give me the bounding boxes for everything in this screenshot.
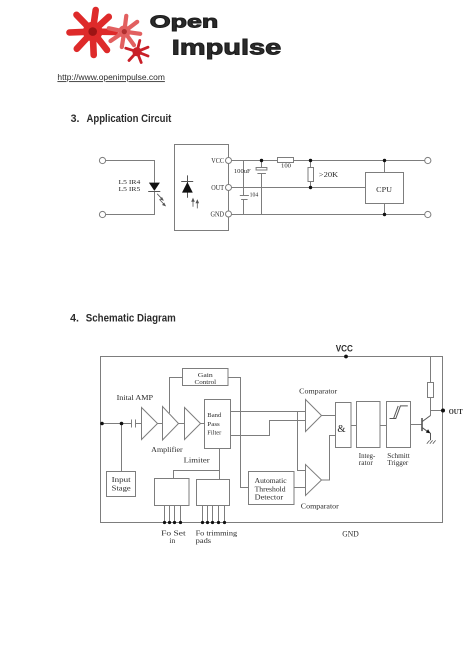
svg-text:Schematic Diagram: Schematic Diagram	[86, 312, 176, 324]
Fo set pin pads	[163, 521, 166, 524]
amp triangle A2	[163, 407, 179, 441]
svg-text:3.: 3.	[71, 113, 80, 125]
input node dots	[100, 422, 104, 426]
wire A2-A3	[179, 423, 185, 425]
wire A1-A2	[158, 423, 163, 425]
svg-text:Automatic: Automatic	[255, 478, 287, 485]
BPF to limiter blocks wire	[219, 449, 221, 481]
Fo set pins	[164, 506, 166, 523]
wire CPU to VCC rail	[384, 161, 386, 173]
integrator out wire	[380, 425, 387, 427]
Fo trimming block	[197, 480, 230, 506]
svg-text:Band: Band	[207, 412, 222, 419]
ground hatch	[427, 440, 436, 443]
svg-text:Control: Control	[195, 379, 217, 386]
junction dots schematic	[100, 355, 445, 525]
logo splat medium	[109, 16, 140, 47]
svg-text:Pass: Pass	[207, 421, 220, 428]
Input Stage box	[107, 472, 136, 497]
svg-text:http://www.openimpulse.com: http://www.openimpulse.com	[57, 72, 164, 82]
svg-text:Threshold: Threshold	[255, 486, 287, 493]
photodiode D2	[181, 175, 198, 208]
terminal input top	[99, 157, 105, 163]
wire top left	[106, 161, 155, 183]
amp triangle A1	[142, 408, 158, 440]
comp1 out wire	[322, 415, 336, 417]
outer box	[101, 357, 443, 523]
capacitor C1 104 line	[243, 161, 245, 196]
svg-text:Amplifier: Amplifier	[151, 445, 183, 454]
schmitt to transistor base wire	[411, 424, 422, 426]
terminal input bottom	[99, 211, 105, 217]
svg-text:&: &	[337, 424, 345, 435]
ATD out wire	[294, 487, 306, 489]
comparator 1	[306, 400, 322, 432]
Schmitt Trigger box	[387, 402, 411, 448]
OUT wire	[431, 410, 443, 412]
Gain Control box	[183, 369, 229, 386]
svg-text:>20K: >20K	[319, 171, 338, 179]
svg-text:100uF: 100uF	[234, 168, 251, 175]
svg-text:4.: 4.	[70, 312, 79, 324]
resistor R2 >20K	[310, 161, 312, 168]
transistor Q1	[422, 416, 436, 444]
svg-text:Impulse: Impulse	[172, 36, 282, 60]
svg-text:OUT: OUT	[449, 407, 464, 416]
Integrator box	[357, 402, 381, 448]
pin circle GND	[226, 211, 232, 217]
svg-text:CPU: CPU	[376, 185, 392, 194]
Band Pass Filter box	[205, 400, 231, 449]
wire A3-BPF	[201, 423, 205, 425]
svg-text:L5 IR4: L5 IR4	[119, 179, 142, 186]
svg-text:Gain: Gain	[198, 372, 214, 379]
Automatic Threshold Detector box	[249, 472, 295, 505]
IC box	[175, 145, 229, 231]
Fo set block	[155, 479, 190, 506]
wire to comparator2 upper input	[298, 412, 306, 471]
svg-text:VCC: VCC	[336, 344, 353, 355]
AND out wire	[351, 425, 357, 427]
svg-text:Limiter: Limiter	[184, 455, 211, 464]
svg-text:Detector: Detector	[255, 494, 284, 501]
svg-text:Filter: Filter	[207, 429, 222, 436]
BPF out upper wire	[231, 411, 306, 413]
svg-text:L5 IR5: L5 IR5	[119, 186, 141, 193]
capacitor C2 100uF line	[261, 161, 263, 168]
svg-text:Comparator: Comparator	[299, 388, 338, 396]
svg-text:Input: Input	[112, 476, 131, 484]
svg-text:Stage: Stage	[112, 485, 131, 493]
svg-text:Application Circuit: Application Circuit	[87, 113, 172, 125]
terminal output bottom	[425, 211, 431, 217]
pin circle OUT	[226, 185, 232, 191]
logo splat small	[126, 41, 148, 63]
svg-text:Inital AMP: Inital AMP	[117, 393, 154, 402]
svg-text:pads: pads	[196, 536, 212, 545]
svg-text:rator: rator	[359, 460, 374, 467]
svg-text:GND: GND	[342, 529, 359, 538]
VCC rail	[232, 160, 426, 162]
wire to input stage	[121, 424, 123, 472]
logo splat large	[70, 10, 115, 55]
comparator 2	[306, 465, 322, 496]
input coupling capacitor	[131, 420, 133, 428]
svg-text:Comparator: Comparator	[301, 502, 340, 510]
svg-text:Open: Open	[150, 12, 219, 32]
resistor R1 100	[278, 158, 294, 163]
svg-text:VCC: VCC	[211, 157, 224, 165]
hysteresis symbol	[390, 406, 408, 419]
svg-text:GND: GND	[211, 211, 225, 219]
svg-text:in: in	[169, 536, 175, 545]
VCC node dot	[344, 355, 348, 359]
gain control right wire	[228, 378, 249, 488]
svg-text:Trigger: Trigger	[387, 460, 409, 467]
svg-text:Integ-: Integ-	[359, 453, 376, 460]
Fo trimming pin pads	[201, 521, 204, 524]
input wire	[101, 423, 132, 425]
pull-up resistor R	[430, 357, 432, 383]
amp triangle A3	[185, 408, 201, 440]
OUT node dot	[441, 409, 445, 413]
photodiode receive arrows	[192, 199, 199, 209]
LED D1 emitter	[148, 183, 165, 206]
comp2 out wire	[322, 436, 336, 481]
gain control left wire	[170, 378, 183, 414]
Fo trimming pins	[202, 506, 204, 523]
AND gate box	[336, 403, 352, 448]
LED emission arrows	[157, 194, 165, 206]
svg-text:100: 100	[281, 163, 291, 170]
svg-text:OUT: OUT	[211, 184, 224, 192]
svg-text:104: 104	[250, 192, 259, 198]
wire bottom left	[106, 192, 155, 215]
BPF out lower wire	[231, 421, 306, 436]
wire CPU to GND rail	[384, 204, 386, 215]
pin circle VCC	[226, 158, 232, 164]
svg-text:Schmitt: Schmitt	[387, 453, 410, 460]
GND rail	[232, 214, 426, 216]
junction dots application circuit	[260, 159, 386, 216]
terminal output top	[425, 157, 431, 163]
CPU box	[366, 173, 404, 204]
OUT rail	[232, 187, 366, 189]
